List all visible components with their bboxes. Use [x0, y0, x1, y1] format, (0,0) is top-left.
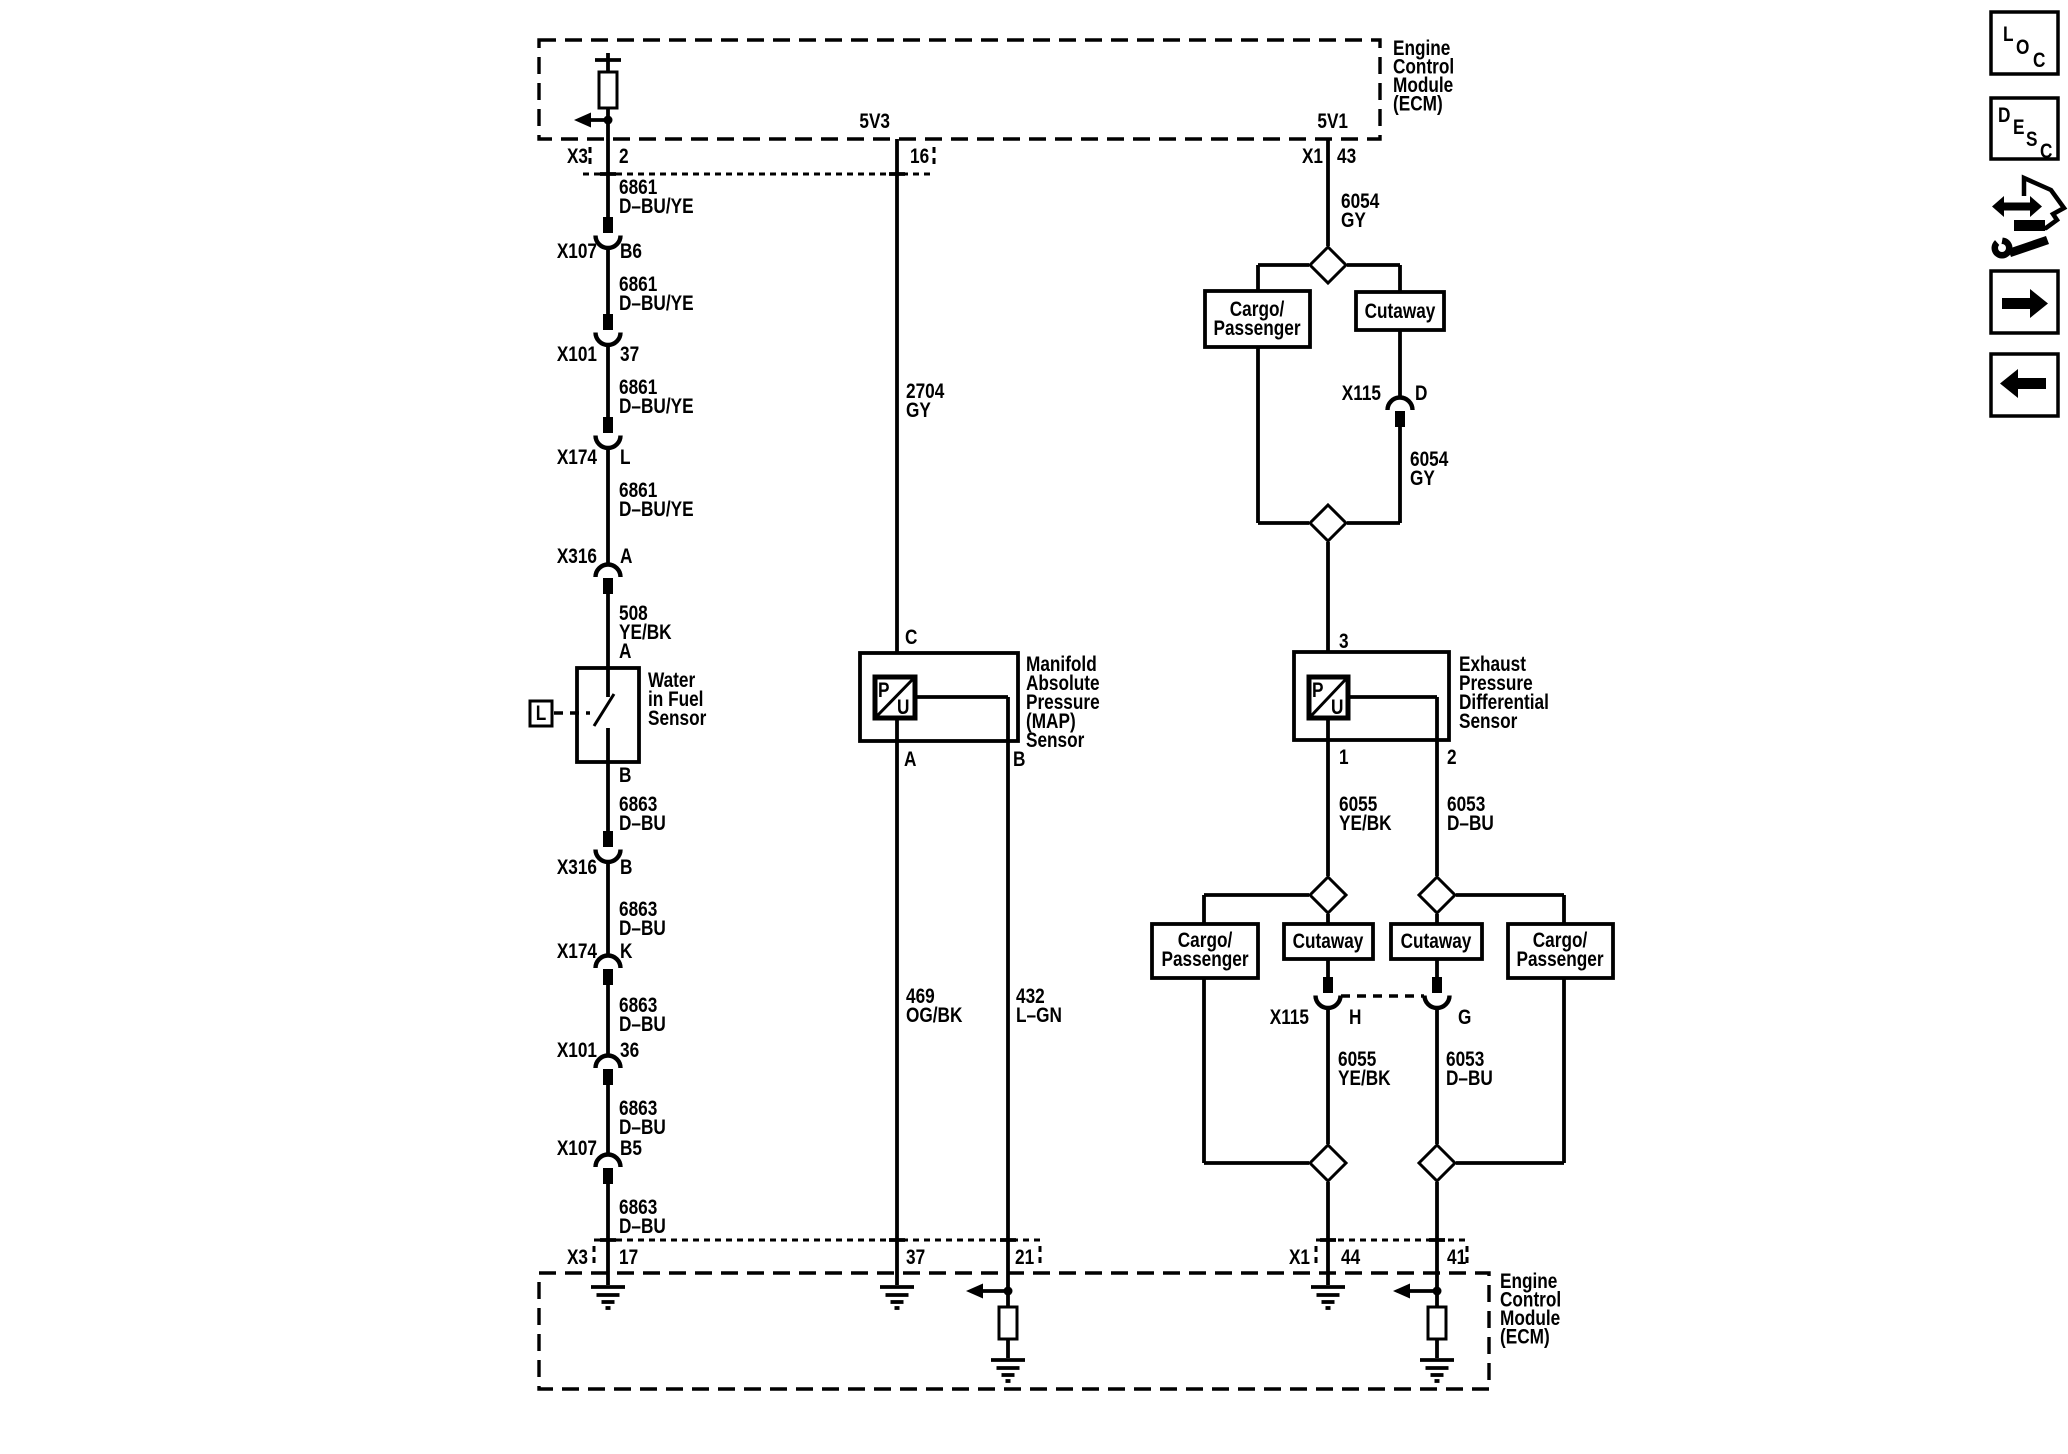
svg-text:Cutaway: Cutaway [1293, 931, 1364, 954]
svg-text:(ECM): (ECM) [1393, 93, 1443, 116]
svg-text:X316: X316 [557, 546, 597, 569]
svg-text:B6: B6 [620, 241, 642, 264]
svg-text:3: 3 [1339, 631, 1349, 654]
svg-text:Sensor: Sensor [1459, 711, 1518, 734]
svg-text:B: B [1013, 749, 1025, 772]
svg-text:Sensor: Sensor [648, 708, 707, 731]
svg-text:2: 2 [619, 146, 629, 169]
svg-text:C: C [905, 627, 918, 650]
svg-text:D–BU: D–BU [1447, 813, 1494, 836]
svg-text:X174: X174 [557, 447, 597, 470]
svg-text:X115: X115 [1270, 1007, 1310, 1030]
svg-text:X3: X3 [567, 1247, 588, 1270]
svg-text:X1: X1 [1289, 1247, 1310, 1270]
svg-text:L: L [536, 703, 547, 726]
svg-text:C: C [2040, 141, 2053, 164]
svg-text:Passenger: Passenger [1516, 949, 1604, 972]
svg-text:X316: X316 [557, 857, 597, 880]
svg-text:36: 36 [620, 1040, 639, 1063]
svg-text:YE/BK: YE/BK [1338, 1068, 1391, 1091]
svg-text:D–BU: D–BU [619, 918, 666, 941]
svg-text:1: 1 [1339, 747, 1349, 770]
svg-text:D–BU: D–BU [1446, 1068, 1493, 1091]
svg-text:L–GN: L–GN [1016, 1005, 1062, 1028]
svg-text:D: D [1415, 383, 1428, 406]
svg-text:37: 37 [620, 344, 639, 367]
svg-text:44: 44 [1341, 1247, 1360, 1270]
svg-text:43: 43 [1337, 146, 1356, 169]
svg-text:16: 16 [910, 146, 929, 169]
svg-text:GY: GY [1410, 468, 1435, 491]
svg-text:D–BU/YE: D–BU/YE [619, 293, 694, 316]
svg-text:H: H [1349, 1007, 1361, 1030]
svg-text:U: U [1331, 697, 1343, 720]
svg-text:D–BU: D–BU [619, 1117, 666, 1140]
svg-text:E: E [2013, 117, 2025, 140]
svg-text:P: P [878, 680, 890, 703]
svg-text:D–BU/YE: D–BU/YE [619, 499, 694, 522]
svg-text:D–BU: D–BU [619, 1014, 666, 1037]
svg-text:GY: GY [906, 400, 931, 423]
svg-text:37: 37 [906, 1247, 925, 1270]
svg-text:21: 21 [1015, 1247, 1034, 1270]
svg-text:B5: B5 [620, 1138, 642, 1161]
svg-text:17: 17 [619, 1247, 638, 1270]
svg-text:GY: GY [1341, 210, 1366, 233]
svg-text:X1: X1 [1302, 146, 1323, 169]
svg-text:A: A [620, 546, 633, 569]
svg-text:X107: X107 [557, 1138, 597, 1161]
svg-text:Passenger: Passenger [1213, 318, 1301, 341]
svg-text:G: G [1458, 1007, 1471, 1030]
svg-text:X107: X107 [557, 241, 597, 264]
svg-text:S: S [2026, 129, 2038, 152]
svg-text:D–BU: D–BU [619, 1216, 666, 1239]
svg-text:OG/BK: OG/BK [906, 1005, 963, 1028]
svg-text:A: A [619, 641, 632, 664]
svg-text:Passenger: Passenger [1161, 949, 1249, 972]
svg-text:X174: X174 [557, 941, 597, 964]
svg-text:D–BU: D–BU [619, 813, 666, 836]
svg-text:5V1: 5V1 [1317, 111, 1348, 134]
svg-text:X115: X115 [1342, 383, 1382, 406]
svg-text:Sensor: Sensor [1026, 730, 1085, 753]
svg-text:X3: X3 [567, 146, 588, 169]
svg-text:C: C [2033, 50, 2046, 73]
svg-text:B: B [620, 857, 632, 880]
svg-text:(ECM): (ECM) [1500, 1326, 1550, 1349]
svg-text:U: U [897, 697, 909, 720]
svg-text:Cutaway: Cutaway [1401, 931, 1472, 954]
svg-text:D–BU/YE: D–BU/YE [619, 196, 694, 219]
svg-text:YE/BK: YE/BK [1339, 813, 1392, 836]
svg-text:D–BU/YE: D–BU/YE [619, 396, 694, 419]
svg-text:P: P [1312, 680, 1324, 703]
svg-text:41: 41 [1447, 1247, 1466, 1270]
svg-text:X101: X101 [557, 1040, 597, 1063]
svg-text:L: L [620, 447, 631, 470]
svg-text:O: O [2016, 37, 2029, 60]
svg-text:L: L [2003, 24, 2014, 47]
svg-text:D: D [1998, 105, 2011, 128]
svg-text:Cutaway: Cutaway [1365, 301, 1436, 324]
svg-text:B: B [619, 765, 631, 788]
svg-text:5V3: 5V3 [859, 111, 890, 134]
svg-text:X101: X101 [557, 344, 597, 367]
svg-text:K: K [620, 941, 633, 964]
svg-text:2: 2 [1447, 747, 1457, 770]
svg-text:A: A [904, 749, 917, 772]
